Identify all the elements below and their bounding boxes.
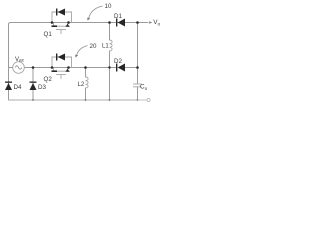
node dot bottom bus <box>137 99 139 101</box>
wire source left lead <box>9 67 13 69</box>
arrow Vo output <box>149 21 152 23</box>
diode D4 <box>5 82 12 91</box>
wire D3 branch vertical <box>32 68 34 101</box>
node dot middle rail x33 <box>32 66 35 69</box>
wire right bus vertical <box>137 23 139 85</box>
svg-text:Co: Co <box>140 84 148 92</box>
svg-text:10: 10 <box>105 3 112 10</box>
svg-text:L2: L2 <box>78 82 85 88</box>
node Q2 source dot <box>67 66 70 69</box>
node Q2 drain dot <box>51 66 54 69</box>
inductor L2 <box>86 77 89 88</box>
svg-text:D2: D2 <box>114 58 122 65</box>
node dot bottom D3 <box>32 99 34 101</box>
node dot bottom L2 <box>85 99 87 101</box>
node dot middle rail x85 <box>84 66 87 69</box>
diode D1 <box>116 19 125 27</box>
wire bottom rail right extension <box>138 99 147 101</box>
wire L2 branch vertical <box>85 68 87 78</box>
wire top rail <box>9 23 138 25</box>
terminal bottom right <box>147 98 150 101</box>
wire left vertical rail <box>8 24 10 100</box>
transistor Q2 <box>51 54 72 80</box>
node dot top bus <box>136 21 139 24</box>
svg-text:Vo: Vo <box>153 19 160 27</box>
svg-text:Vac: Vac <box>15 57 25 64</box>
capacitor Co <box>133 84 142 87</box>
node dot bottom L1 <box>109 99 111 101</box>
node Q1 source dot <box>67 21 70 24</box>
diode D2 <box>116 64 125 72</box>
svg-text:Q2: Q2 <box>44 76 53 83</box>
wire middle rail from source to D2 <box>24 67 116 69</box>
callout 10 arc <box>89 6 103 19</box>
node dot middle rail x109 <box>108 66 110 68</box>
svg-text:D1: D1 <box>114 13 122 20</box>
svg-text:20: 20 <box>90 43 97 50</box>
callout 20 arc <box>77 46 88 56</box>
node dot bus D2 <box>136 66 139 69</box>
wire L1 branch vertical <box>109 23 111 41</box>
transistor Q1 <box>51 9 72 35</box>
svg-text:D4: D4 <box>14 84 22 91</box>
node dot top L1 <box>108 21 111 24</box>
inductor L1 <box>110 40 113 51</box>
source Vac circle <box>13 62 25 74</box>
diode D3 <box>30 82 37 91</box>
wire output stub to Vo <box>138 22 149 24</box>
wire bottom rail <box>9 99 138 101</box>
node Q1 drain dot <box>51 21 54 24</box>
diode body Q2 <box>52 54 70 73</box>
svg-text:L1: L1 <box>102 44 109 50</box>
diode body Q1 <box>52 9 70 28</box>
svg-text:Q1: Q1 <box>44 31 53 38</box>
svg-text:D3: D3 <box>38 84 46 91</box>
